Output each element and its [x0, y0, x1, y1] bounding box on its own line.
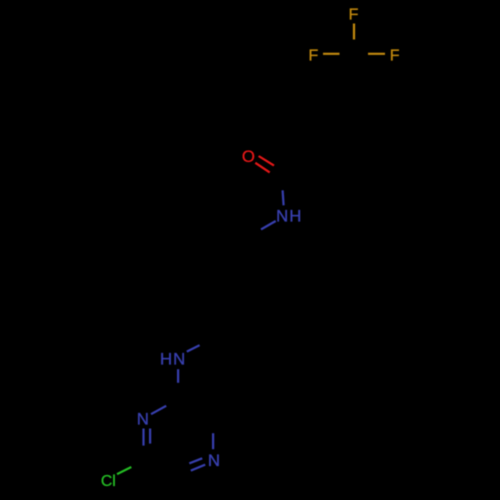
double bond N1=C6 outer line (N half) — [142, 429, 144, 446]
svg-text:F: F — [309, 48, 319, 65]
bond C(=O)-N (N half) — [283, 190, 284, 205]
svg-text:Cl: Cl — [101, 473, 116, 490]
bond HN-C2 ring (N half) — [177, 369, 179, 383]
bond N-CH2 (N half) — [261, 221, 276, 229]
svg-text:NH: NH — [276, 207, 302, 226]
double bond C=O line 2 (O half) — [255, 163, 269, 173]
bond C-F right (F half) — [368, 53, 385, 55]
double bond N4=C5 axis line (N half) — [191, 465, 205, 471]
svg-text:N: N — [208, 451, 220, 470]
bond C-F left (F half) — [323, 53, 340, 55]
svg-text:F: F — [349, 7, 359, 24]
bond C-F top (F half) — [353, 24, 355, 40]
double bond N4=C5 inner line (N half) — [189, 458, 202, 463]
svg-text:O: O — [242, 147, 255, 166]
bond N4-C3 (N half) — [212, 433, 214, 449]
svg-text:N: N — [137, 409, 149, 428]
double bond N1=C6 inner line (N half) — [149, 429, 151, 444]
svg-text:HN: HN — [160, 350, 186, 369]
bond N1-C2 (N half) — [151, 406, 166, 414]
double bond C=O line 1 (O half) — [259, 156, 274, 166]
bond HN-CH2 (N half) — [187, 345, 200, 351]
bond Cl-C6 (Cl half) — [117, 467, 131, 474]
svg-text:F: F — [390, 48, 400, 65]
